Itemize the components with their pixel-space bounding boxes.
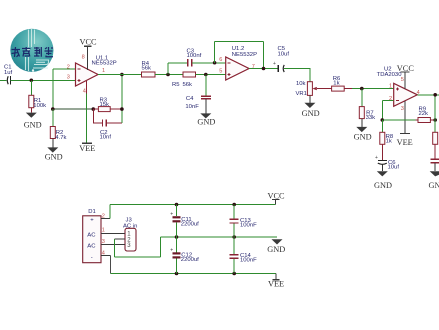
svg-text:1k: 1k	[333, 81, 339, 87]
svg-text:VEE: VEE	[268, 280, 284, 289]
svg-text:GND: GND	[354, 132, 372, 141]
svg-text:33k: 33k	[366, 115, 376, 121]
node VEE C12	[175, 272, 179, 276]
VEE power port	[268, 274, 284, 289]
svg-text:10nF: 10nF	[185, 104, 199, 110]
resistor R10	[433, 132, 438, 158]
node R8 top	[381, 118, 385, 122]
svg-text:56k: 56k	[183, 82, 193, 88]
node rail right	[92, 107, 96, 111]
node GND C12 top	[175, 235, 179, 239]
node input junction	[30, 78, 34, 82]
node pin6	[213, 61, 217, 65]
svg-text:3: 3	[67, 75, 70, 81]
node output U2	[433, 93, 437, 97]
svg-text:1: 1	[102, 228, 105, 234]
svg-text:GND: GND	[45, 153, 63, 162]
node output U1.1	[120, 73, 124, 77]
wire output vertical U1.1	[121, 75, 123, 124]
capacitor C5	[273, 46, 310, 72]
ground C7	[429, 171, 439, 190]
resistor R7	[359, 89, 375, 127]
capacitor C1	[4, 65, 13, 85]
watermark logo	[10, 29, 53, 72]
wire D1 pin1 to J3 pin1	[101, 233, 125, 235]
svg-text:100nF: 100nF	[240, 258, 257, 264]
svg-text:AC: AC	[87, 243, 96, 249]
ground R2	[45, 147, 63, 161]
svg-text:10nf: 10nf	[100, 134, 112, 140]
svg-text:+: +	[375, 155, 378, 161]
wire R2 top	[52, 109, 54, 126]
svg-text:4: 4	[83, 89, 86, 95]
svg-text:GND: GND	[197, 118, 215, 127]
svg-text:NE5532P: NE5532P	[232, 52, 257, 58]
wire VCC rail	[110, 204, 276, 206]
svg-text:GND: GND	[429, 181, 439, 190]
svg-text:D1: D1	[88, 209, 96, 215]
capacitor C2	[93, 109, 122, 140]
node R3 right	[120, 107, 124, 111]
wire U2 output	[417, 95, 439, 133]
svg-text:VR1: VR1	[296, 91, 307, 97]
capacitor C7	[430, 159, 439, 171]
svg-text:10uf: 10uf	[388, 164, 400, 170]
svg-text:4.7k: 4.7k	[55, 135, 66, 141]
capacitor C12	[170, 237, 199, 274]
VCC U2	[397, 64, 415, 89]
capacitor C11	[170, 205, 199, 238]
VEE U2	[397, 101, 413, 147]
resistor R3	[93, 97, 122, 111]
node VEE C14	[232, 272, 236, 276]
svg-text:GND: GND	[24, 121, 42, 130]
wire J3 pin2 to GND rail	[114, 237, 160, 257]
svg-text:1k: 1k	[386, 139, 392, 145]
svg-text:5: 5	[401, 77, 404, 83]
svg-text:100nf: 100nf	[187, 53, 202, 59]
resistor R9	[382, 107, 435, 123]
wire VEE rail	[111, 273, 277, 275]
bridge D1	[83, 209, 105, 263]
ground VR1	[302, 103, 320, 118]
svg-text:1: 1	[389, 83, 392, 89]
op-amp U1.2	[219, 46, 257, 80]
node C	[204, 73, 208, 77]
svg-text:1: 1	[102, 68, 105, 74]
resistor R8	[380, 120, 394, 160]
svg-text:10k: 10k	[296, 81, 306, 87]
svg-text:+: +	[273, 61, 276, 67]
node rail left	[51, 107, 55, 111]
node VCC C11	[175, 203, 179, 207]
wire output U1.1	[98, 74, 142, 76]
capacitor C3	[168, 49, 226, 75]
svg-text:100k: 100k	[33, 103, 46, 109]
svg-text:VCC: VCC	[80, 37, 98, 46]
ground R1	[24, 113, 42, 130]
svg-text:100nF: 100nF	[240, 223, 257, 229]
svg-text:-: -	[91, 254, 93, 260]
VEE U1.1	[79, 81, 95, 153]
node GND C14 top	[232, 235, 236, 239]
ground R7	[354, 127, 372, 141]
resistor R1	[29, 95, 46, 112]
VCC power port	[268, 191, 286, 204]
svg-text:3: 3	[102, 239, 105, 245]
node VCC C13	[232, 203, 236, 207]
wire R1 top	[30, 80, 32, 95]
svg-text:15k: 15k	[100, 102, 110, 108]
svg-text:GND: GND	[267, 245, 285, 254]
wire U2 pin2 loop	[382, 101, 393, 120]
svg-text:56k: 56k	[142, 66, 152, 72]
svg-text:8: 8	[82, 55, 85, 61]
svg-text:AC: AC	[87, 233, 96, 239]
svg-text:3: 3	[401, 106, 404, 112]
wire C1 to pin3	[10, 79, 75, 81]
svg-text:GND: GND	[302, 109, 320, 118]
node A	[166, 73, 170, 77]
svg-text:VEE: VEE	[79, 144, 95, 153]
svg-text:AC in: AC in	[123, 223, 137, 229]
wire feedback rail U1.1	[53, 108, 94, 110]
svg-text:R5: R5	[172, 82, 180, 88]
capacitor C6	[375, 155, 399, 171]
svg-text:NE5532P: NE5532P	[92, 61, 117, 67]
op-amp U1.1	[67, 55, 117, 95]
wire feedback U1.2	[215, 41, 278, 68]
node R6 right	[360, 87, 364, 91]
wire D1 pin4 to VEE rail	[101, 256, 111, 274]
svg-text:VEE: VEE	[397, 138, 413, 147]
svg-text:2200uf: 2200uf	[181, 222, 199, 228]
capacitor C14	[230, 237, 257, 274]
potentiometer VR1	[296, 81, 332, 103]
svg-text:+: +	[170, 211, 173, 217]
svg-text:2: 2	[67, 65, 70, 71]
svg-text:1uf: 1uf	[4, 70, 13, 76]
GND power port	[267, 239, 285, 254]
resistor R5	[172, 72, 196, 88]
node R9 right	[433, 118, 437, 122]
ground C4	[197, 113, 215, 126]
svg-text:10uf: 10uf	[278, 51, 290, 57]
wire GND rail	[161, 236, 277, 238]
wire input	[0, 79, 6, 81]
wire C5 to VR1	[309, 68, 311, 82]
wire pin2 loop	[53, 69, 76, 109]
op-amp U2	[377, 66, 420, 112]
node feedback out	[262, 67, 266, 71]
wire R5 to node C	[196, 74, 226, 76]
connector J3	[123, 218, 137, 251]
wire R6 to U2	[362, 88, 394, 90]
ground C6	[374, 171, 392, 190]
svg-text:C4: C4	[186, 96, 194, 102]
svg-text:2200uf: 2200uf	[181, 257, 199, 263]
svg-text:6: 6	[219, 57, 222, 63]
capacitor C13	[230, 205, 257, 238]
VCC U1.1	[80, 37, 98, 70]
resistor R6	[332, 76, 362, 91]
svg-text:5: 5	[219, 69, 222, 75]
resistor R2	[50, 127, 66, 148]
wire D1 pin3 to J3 pin3	[101, 244, 125, 246]
svg-text:+: +	[170, 247, 173, 253]
svg-text:22k: 22k	[419, 111, 429, 117]
svg-text:+: +	[90, 217, 94, 223]
wire D1 pin2 to VCC rail	[101, 205, 110, 219]
wire R4 to node A	[155, 74, 183, 76]
svg-text:GND: GND	[374, 181, 392, 190]
resistor R4	[142, 61, 156, 77]
capacitor C4	[185, 75, 210, 114]
